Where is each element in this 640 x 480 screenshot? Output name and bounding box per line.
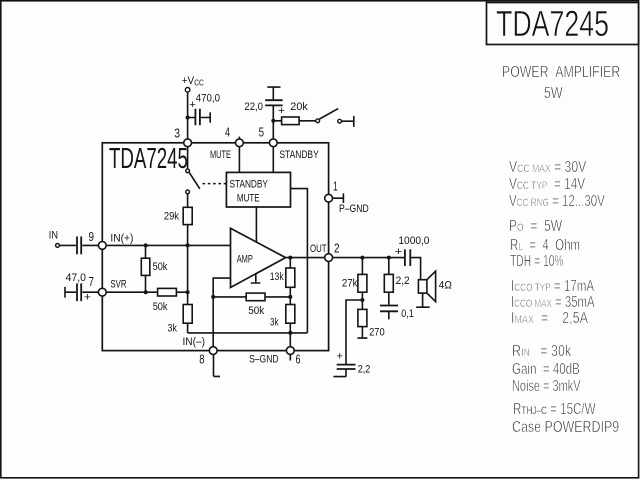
svg-text:2,2: 2,2: [358, 364, 371, 376]
svg-text:6: 6: [296, 353, 301, 367]
svg-text:P–GND: P–GND: [339, 203, 369, 215]
svg-text:IN: IN: [49, 230, 58, 242]
svg-text:8: 8: [199, 353, 204, 367]
svg-text:3k: 3k: [168, 323, 178, 335]
svg-text:470,0: 470,0: [196, 93, 220, 105]
svg-text:22,0: 22,0: [244, 102, 263, 114]
svg-text:3k: 3k: [270, 316, 279, 329]
svg-text:+: +: [337, 351, 343, 363]
svg-text:S–GND: S–GND: [249, 354, 278, 366]
svg-text:4Ω: 4Ω: [439, 279, 452, 292]
svg-text:AMP: AMP: [237, 253, 253, 265]
svg-text:270: 270: [369, 327, 385, 339]
svg-text:50k: 50k: [153, 261, 169, 273]
svg-text:1: 1: [333, 180, 338, 194]
svg-text:STANDBY: STANDBY: [230, 178, 269, 190]
svg-text:9: 9: [89, 231, 94, 245]
svg-text:+: +: [84, 292, 91, 303]
svg-text:TDA7245: TDA7245: [109, 143, 188, 175]
svg-text:3: 3: [174, 126, 180, 140]
svg-text:MUTE: MUTE: [210, 149, 231, 161]
svg-text:4: 4: [225, 126, 230, 140]
svg-text:29k: 29k: [164, 211, 180, 223]
svg-text:+: +: [395, 245, 402, 258]
svg-text:13k: 13k: [270, 271, 284, 283]
svg-text:50k: 50k: [248, 306, 265, 318]
svg-text:+V: +V: [182, 74, 194, 87]
svg-text:STANDBY: STANDBY: [279, 149, 319, 161]
svg-text:47,0: 47,0: [66, 272, 86, 284]
svg-text:IN(–): IN(–): [183, 336, 205, 348]
svg-text:+: +: [278, 105, 285, 116]
svg-text:+: +: [189, 99, 196, 111]
svg-text:IN(+): IN(+): [110, 232, 133, 244]
svg-text:2,2: 2,2: [396, 275, 410, 287]
svg-text:20k: 20k: [290, 101, 308, 113]
svg-text:OUT: OUT: [310, 243, 327, 256]
svg-text:MUTE: MUTE: [237, 192, 260, 205]
svg-text:SVR: SVR: [110, 278, 126, 291]
svg-text:50k: 50k: [153, 301, 169, 313]
svg-text:0,1: 0,1: [401, 308, 414, 320]
svg-text:CC: CC: [194, 78, 203, 88]
svg-text:27k: 27k: [342, 278, 358, 290]
svg-text:2: 2: [334, 242, 339, 256]
svg-text:7: 7: [89, 276, 94, 290]
svg-text:5: 5: [259, 126, 264, 140]
svg-text:1000,0: 1000,0: [398, 234, 429, 246]
